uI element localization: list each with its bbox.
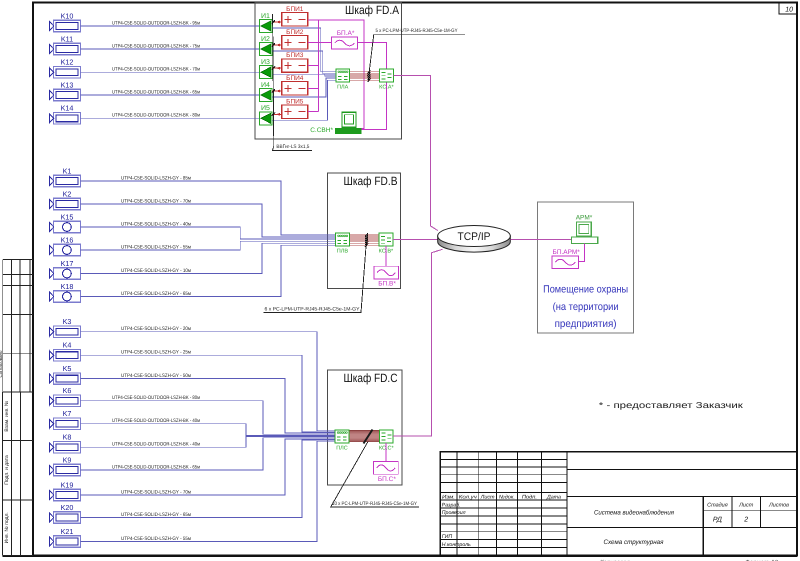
svg-text:ПЛА: ПЛА bbox=[337, 85, 349, 91]
leader line 6 x PC-LPM cords label bbox=[263, 247, 366, 313]
cable bundle hatch FD.B bbox=[365, 233, 368, 247]
svg-text:Листов: Листов bbox=[768, 503, 789, 509]
patch cords ПЛВ to КС.В (6x) bbox=[349, 235, 379, 245]
camera K2 bbox=[49, 189, 80, 209]
camera K14 bbox=[49, 104, 80, 124]
svg-text:UTP4-C5E-SOLID-LSZH-GY - 40м: UTP4-C5E-SOLID-LSZH-GY - 40м bbox=[121, 221, 192, 227]
svg-text:UTP4-C5E-SOLID-LSZH-GY - 70м: UTP4-C5E-SOLID-LSZH-GY - 70м bbox=[121, 198, 192, 204]
svg-text:Лист: Лист bbox=[738, 503, 754, 509]
svg-text:АРМ*: АРМ* bbox=[576, 215, 593, 222]
security room box Помещение охраны bbox=[538, 202, 634, 333]
svg-text:UTP4-C5E-SOLID-LSZH-GY - 20м: UTP4-C5E-SOLID-LSZH-GY - 20м bbox=[121, 326, 192, 332]
svg-text:№док.: №док. bbox=[499, 495, 515, 501]
wire И2 to БПИ2 bbox=[272, 44, 282, 47]
wire K11 to И bbox=[81, 48, 260, 50]
svg-text:5 x PC-LPM-UTP-RJ45-RJ45-C5e-1: 5 x PC-LPM-UTP-RJ45-RJ45-C5e-1M-GY bbox=[376, 28, 459, 34]
svg-text:Лист: Лист bbox=[480, 495, 496, 501]
svg-text:* - предоставляет Заказчик: * - предоставляет Заказчик bbox=[599, 400, 743, 410]
svg-text:K11: K11 bbox=[61, 34, 73, 43]
network switch КС.А bbox=[379, 69, 394, 91]
cable bundle hatch FD.C bbox=[364, 430, 373, 444]
power supply БП.А bbox=[332, 30, 358, 49]
wire БП.А to С.СВН bbox=[358, 42, 387, 129]
camera K19 bbox=[49, 480, 80, 500]
svg-text:И1: И1 bbox=[261, 13, 270, 20]
svg-text:Шкаф FD.B: Шкаф FD.B bbox=[344, 174, 398, 188]
camera K16 bbox=[49, 235, 80, 255]
svg-text:K4: K4 bbox=[63, 341, 72, 350]
svg-text:10 x PC-LPM-UTP-RJ45-RJ45-C5e-: 10 x PC-LPM-UTP-RJ45-RJ45-C5e-1M-GY bbox=[332, 501, 418, 507]
svg-text:UTP4-C5E-SOLID-LSZH-GY - 50м: UTP4-C5E-SOLID-LSZH-GY - 50м bbox=[121, 373, 192, 379]
network switch КС.С bbox=[379, 430, 395, 452]
wire АРМ to БП.АРМ bbox=[579, 243, 585, 261]
video transmitter И1 bbox=[259, 13, 272, 33]
svg-text:Взам. инв. №: Взам. инв. № bbox=[4, 400, 10, 432]
camera K10 bbox=[49, 11, 80, 31]
patch panel ПЛВ bbox=[336, 233, 350, 255]
sheet zone box top-right bbox=[779, 3, 797, 15]
svg-text:БПИ4: БПИ4 bbox=[286, 75, 304, 82]
svg-text:K2: K2 bbox=[63, 189, 72, 198]
title block staff labels bbox=[442, 502, 471, 548]
svg-text:Подп.: Подп. bbox=[522, 495, 537, 501]
svg-text:K18: K18 bbox=[61, 282, 74, 291]
svg-text:БП.АРМ*: БП.АРМ* bbox=[553, 249, 581, 256]
svg-text:K16: K16 bbox=[61, 235, 74, 244]
wire K17 to ПЛВ bbox=[81, 243, 336, 273]
svg-text:K1: K1 bbox=[63, 166, 72, 175]
wire K6 to ПЛС bbox=[81, 401, 336, 435]
workstation АРМ bbox=[572, 215, 598, 244]
svg-text:предприятия): предприятия) bbox=[555, 318, 617, 330]
svg-text:K17: K17 bbox=[61, 259, 74, 268]
cabinet box Шкаф FD.C bbox=[328, 370, 403, 485]
network link КС.В to TCP/IP bbox=[393, 239, 438, 241]
svg-text:И4: И4 bbox=[261, 82, 270, 89]
wire K16 to ПЛВ bbox=[81, 241, 336, 250]
camera K21 bbox=[49, 527, 80, 547]
camera K12 bbox=[49, 58, 80, 78]
network link TCP/IP to АРМ bbox=[510, 239, 571, 241]
svg-text:UTP4-C5E-SOLID-OUTDOOR-LSZH-BK: UTP4-C5E-SOLID-OUTDOOR-LSZH-BK - 80м bbox=[112, 113, 200, 119]
power injector unit БПИ2 bbox=[282, 29, 308, 49]
footer marks bbox=[600, 559, 778, 561]
wire И4 output to ПЛА bbox=[272, 78, 336, 97]
wire И1 output to ПЛА bbox=[272, 28, 336, 72]
svg-text:И5: И5 bbox=[261, 105, 270, 112]
wire K8 to ПЛС bbox=[81, 437, 336, 448]
svg-text:Помещение охраны: Помещение охраны bbox=[543, 284, 628, 296]
svg-text:K10: K10 bbox=[61, 11, 74, 20]
svg-text:6 x PC-LPM-UTP-RJ45-RJ45-C5e-1: 6 x PC-LPM-UTP-RJ45-RJ45-C5e-1M-GY bbox=[265, 306, 361, 312]
wire K1 to ПЛВ bbox=[81, 181, 336, 235]
svg-text:UTP4-C5E-SOLID-OUTDOOR-LSZH-BK: UTP4-C5E-SOLID-OUTDOOR-LSZH-BK - 80м bbox=[112, 395, 200, 401]
network link КС.С to TCP/IP bbox=[393, 249, 443, 436]
svg-text:Разраб.: Разраб. bbox=[442, 502, 461, 508]
svg-text:Шкаф FD.A: Шкаф FD.A bbox=[345, 3, 399, 17]
wire И5 to БПИ5 bbox=[272, 113, 282, 116]
svg-text:БП.В*: БП.В* bbox=[378, 281, 396, 288]
svg-text:Н.контроль: Н.контроль bbox=[442, 542, 471, 548]
svg-text:БП.С*: БП.С* bbox=[378, 476, 396, 483]
wire K13 to И bbox=[81, 94, 260, 96]
wire И1 to БПИ1 bbox=[272, 21, 282, 24]
stage column labels bbox=[707, 503, 789, 509]
svg-text:K20: K20 bbox=[61, 503, 74, 512]
svg-text:БПИ5: БПИ5 bbox=[286, 98, 304, 105]
svg-text:(на территории: (на территории bbox=[553, 301, 619, 313]
left margin approval table bbox=[3, 259, 33, 392]
camera K20 bbox=[49, 503, 80, 523]
svg-text:UTP4-C5E-SOLID-LSZH-GY - 55м: UTP4-C5E-SOLID-LSZH-GY - 55м bbox=[121, 536, 192, 542]
svg-text:UTP4-C5E-SOLID-LSZH-GY - 65м: UTP4-C5E-SOLID-LSZH-GY - 65м bbox=[121, 291, 192, 297]
svg-text:Подп. и дата: Подп. и дата bbox=[4, 455, 10, 485]
wire И3 output to ПЛА bbox=[272, 74, 336, 76]
power injector unit БПИ5 bbox=[282, 98, 308, 118]
svg-text:UTP4-C5E-SOLID-LSZH-GY - 10м: UTP4-C5E-SOLID-LSZH-GY - 10м bbox=[121, 268, 192, 274]
camera K17 bbox=[49, 259, 80, 279]
video transmitter И2 bbox=[259, 36, 272, 56]
svg-text:K12: K12 bbox=[61, 58, 74, 67]
title block (основная надпись) bbox=[440, 452, 797, 556]
svg-text:И3: И3 bbox=[261, 59, 270, 66]
cabinet box Шкаф FD.A bbox=[255, 3, 401, 139]
svg-text:Дата: Дата bbox=[546, 495, 561, 501]
camera K7 bbox=[49, 409, 80, 429]
wire K10 to И bbox=[81, 25, 260, 27]
cable bundle hatch FD.A bbox=[368, 70, 371, 82]
camera K8 bbox=[49, 433, 80, 453]
patch panel ПЛА bbox=[336, 69, 350, 91]
svg-text:K13: K13 bbox=[61, 80, 74, 89]
patch cords ПЛА to КС.А (5x) bbox=[350, 72, 380, 80]
wire K4 to ПЛС bbox=[81, 355, 336, 432]
power supply БП.С bbox=[373, 462, 398, 483]
wire И3 to БПИ3 bbox=[272, 67, 282, 70]
leader line cable ВВГнг-LS 3х1,5 bbox=[272, 14, 311, 151]
camera K18 bbox=[49, 282, 80, 302]
svg-text:Система видеонаблюдения: Система видеонаблюдения bbox=[594, 510, 674, 517]
svg-text:UTP4-C5E-SOLID-LSZH-GY - 55м: UTP4-C5E-SOLID-LSZH-GY - 55м bbox=[121, 244, 192, 250]
svg-text:Изм.: Изм. bbox=[442, 495, 455, 501]
wire K5 to ПЛС bbox=[81, 379, 336, 434]
camera K3 bbox=[49, 317, 80, 337]
svg-text:2: 2 bbox=[743, 517, 748, 524]
camera K9 bbox=[49, 455, 80, 475]
camera K4 bbox=[49, 341, 80, 361]
svg-text:K5: K5 bbox=[63, 364, 72, 373]
network switch КС.В bbox=[379, 233, 394, 255]
server С.СВН bbox=[310, 112, 361, 134]
svg-text:K9: K9 bbox=[63, 455, 72, 464]
wire БПИ1 to С.СВН power bbox=[319, 20, 364, 129]
svg-text:С.СВН*: С.СВН* bbox=[310, 127, 333, 134]
svg-text:Кол.уч: Кол.уч bbox=[459, 495, 477, 501]
svg-text:Стадия: Стадия bbox=[707, 503, 728, 509]
wire K2 to ПЛВ bbox=[81, 204, 336, 237]
camera K1 bbox=[49, 166, 80, 186]
power injector unit БПИ3 bbox=[282, 52, 308, 72]
wire КС.С to БП.С bbox=[385, 443, 387, 462]
svg-text:Согласовано: Согласовано bbox=[0, 350, 3, 378]
svg-text:UTP4-C5E-SOLID-OUTDOOR-LSZH-BK: UTP4-C5E-SOLID-OUTDOOR-LSZH-BK - 40м bbox=[112, 418, 200, 424]
svg-text:РД: РД bbox=[713, 517, 722, 524]
svg-text:UTP4-C5E-SOLID-LSZH-GY - 65м: UTP4-C5E-SOLID-LSZH-GY - 65м bbox=[121, 512, 192, 518]
svg-text:K14: K14 bbox=[61, 104, 74, 113]
wire K21 to ПЛС bbox=[81, 441, 336, 541]
video transmitter И3 bbox=[259, 59, 272, 79]
svg-text:БПИ3: БПИ3 bbox=[286, 52, 304, 59]
wire И2 output to ПЛА bbox=[272, 51, 336, 74]
svg-text:K15: K15 bbox=[61, 212, 74, 221]
leader line 5 x PC-LPM cords label bbox=[369, 28, 465, 72]
wire K20 to ПЛС bbox=[81, 440, 336, 518]
svg-text:UTP4-C5E-SOLID-OUTDOOR-LSZH-BK: UTP4-C5E-SOLID-OUTDOOR-LSZH-BK - 40м bbox=[112, 442, 200, 448]
svg-text:UTP4-C5E-SOLID-LSZH-GY - 25м: UTP4-C5E-SOLID-LSZH-GY - 25м bbox=[121, 350, 192, 356]
cabinet box Шкаф FD.B bbox=[328, 173, 401, 288]
wire И4 to БПИ4 bbox=[272, 90, 282, 93]
svg-text:Инв. № подл.: Инв. № подл. bbox=[4, 512, 10, 543]
wire K14 to И bbox=[81, 117, 260, 119]
video transmitter И4 bbox=[259, 82, 272, 102]
video transmitter И5 bbox=[259, 105, 272, 125]
svg-text:K3: K3 bbox=[63, 317, 72, 326]
wire И5 output to ПЛА bbox=[272, 80, 336, 120]
svg-text:K21: K21 bbox=[61, 527, 74, 536]
svg-text:UTP4-C5E-SOLID-OUTDOOR-LSZH-BK: UTP4-C5E-SOLID-OUTDOOR-LSZH-BK - 75м bbox=[112, 43, 200, 49]
svg-text:ГИП: ГИП bbox=[442, 534, 453, 540]
svg-text:Схема структурная: Схема структурная bbox=[604, 539, 664, 546]
svg-text:БПИ1: БПИ1 bbox=[286, 6, 304, 13]
power injector unit БПИ1 bbox=[282, 6, 308, 26]
title block header labels bbox=[442, 495, 561, 501]
wire K15 to ПЛВ bbox=[81, 227, 336, 239]
svg-text:K8: K8 bbox=[63, 433, 72, 442]
hatch marks on ВВГ leader bbox=[272, 20, 275, 116]
camera K5 bbox=[49, 364, 80, 384]
camera K6 bbox=[49, 386, 80, 406]
svg-text:БП.А*: БП.А* bbox=[337, 30, 355, 37]
wire power bus to БП.А bbox=[319, 41, 332, 43]
svg-text:И2: И2 bbox=[261, 36, 270, 43]
wire K12 to И bbox=[81, 71, 260, 73]
camera K11 bbox=[49, 34, 80, 54]
svg-text:КС.А*: КС.А* bbox=[379, 85, 394, 91]
camera K15 bbox=[49, 212, 80, 232]
wire K7 to ПЛС bbox=[81, 424, 336, 436]
wire K3 to ПЛС bbox=[81, 332, 336, 431]
left margin inventory columns bbox=[3, 392, 34, 555]
svg-text:ПЛС: ПЛС bbox=[336, 445, 348, 451]
svg-text:UTP4-C5E-SOLID-LSZH-GY - 70м: UTP4-C5E-SOLID-LSZH-GY - 70м bbox=[121, 489, 192, 495]
svg-text:K7: K7 bbox=[63, 409, 72, 418]
svg-text:Проверил: Проверил bbox=[442, 510, 466, 516]
svg-text:ВВГнг-LS 3х1,5: ВВГнг-LS 3х1,5 bbox=[276, 144, 309, 150]
svg-text:БПИ2: БПИ2 bbox=[286, 29, 304, 36]
power supply БП.В bbox=[374, 266, 399, 287]
svg-text:K6: K6 bbox=[63, 386, 72, 395]
power bus БПИ collector bbox=[308, 19, 319, 21]
svg-text:ПЛВ: ПЛВ bbox=[337, 249, 349, 255]
power supply БП.АРМ bbox=[552, 249, 580, 269]
svg-text:K19: K19 bbox=[61, 480, 74, 489]
wire K9 to ПЛС bbox=[81, 438, 336, 470]
svg-text:UTP4-C5E-SOLID-OUTDOOR-LSZH-BK: UTP4-C5E-SOLID-OUTDOOR-LSZH-BK - 65м bbox=[112, 89, 200, 95]
svg-text:КС.С*: КС.С* bbox=[379, 445, 395, 451]
camera K13 bbox=[49, 80, 80, 100]
svg-text:TCP/IP: TCP/IP bbox=[458, 231, 491, 243]
svg-text:UTP4-C5E-SOLID-OUTDOOR-LSZH-BK: UTP4-C5E-SOLID-OUTDOOR-LSZH-BK - 65м bbox=[112, 464, 200, 470]
wire K19 to ПЛС bbox=[81, 439, 336, 495]
power injector unit БПИ4 bbox=[282, 75, 308, 95]
network link КС.А to TCP/IP bbox=[393, 76, 437, 231]
leader line 10 x PC-LPM cords label bbox=[331, 442, 419, 508]
stage values bbox=[713, 517, 748, 524]
patch panel ПЛС bbox=[335, 430, 349, 452]
wire K18 to ПЛВ bbox=[81, 245, 336, 296]
svg-text:UTP4-C5E-SOLID-OUTDOOR-LSZH-BK: UTP4-C5E-SOLID-OUTDOOR-LSZH-BK - 95м bbox=[112, 20, 200, 26]
wire КС.В to БП.В bbox=[385, 246, 387, 266]
svg-text:10: 10 bbox=[785, 7, 793, 14]
svg-text:UTP4-C5E-SOLID-OUTDOOR-LSZH-BK: UTP4-C5E-SOLID-OUTDOOR-LSZH-BK - 70м bbox=[112, 67, 200, 73]
svg-text:Шкаф FD.C: Шкаф FD.C bbox=[344, 371, 398, 385]
svg-text:UTP4-C5E-SOLID-LSZH-GY - 85м: UTP4-C5E-SOLID-LSZH-GY - 85м bbox=[121, 175, 192, 181]
